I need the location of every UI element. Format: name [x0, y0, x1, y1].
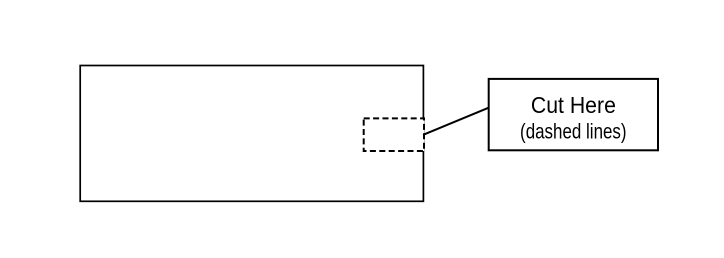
label box — [489, 79, 658, 150]
svg-text:Cut Here: Cut Here — [531, 92, 616, 118]
connector line — [423, 108, 489, 135]
big rectangle (card outline) — [80, 66, 423, 202]
dashed cut region (white fill masks card right edge) — [364, 118, 424, 151]
svg-text:(dashed lines): (dashed lines) — [520, 119, 627, 143]
